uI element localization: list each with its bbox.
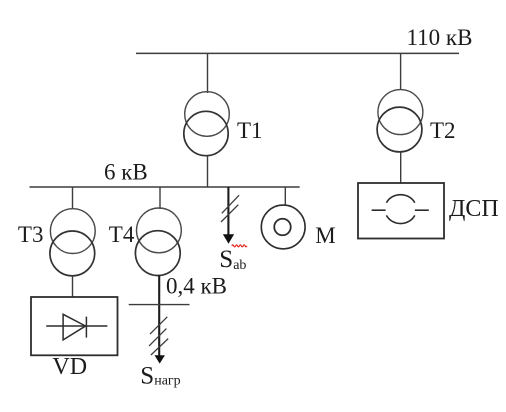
wire T4 primary xyxy=(159,187,161,209)
svg-text:Sнагр: Sнагр xyxy=(140,362,180,389)
arrow S_ab xyxy=(223,234,234,244)
wire T1 primary xyxy=(207,53,209,93)
diode symbol xyxy=(46,314,107,340)
arrow S_nagr xyxy=(155,355,165,363)
svg-text:Sab: Sab xyxy=(219,246,246,273)
svg-text:T3: T3 xyxy=(18,222,44,247)
svg-text:T4: T4 xyxy=(109,222,135,247)
bus 6 kV xyxy=(30,186,300,188)
wire motor M xyxy=(284,187,286,206)
svg-text:T2: T2 xyxy=(430,118,456,143)
wire T3 primary xyxy=(72,187,74,209)
spellcheck squiggle xyxy=(232,245,247,247)
svg-text:110 кВ: 110 кВ xyxy=(407,25,473,50)
hatch marks S_nagr xyxy=(149,317,168,355)
svg-text:0,4 кВ: 0,4 кВ xyxy=(166,274,227,299)
svg-text:ДСП: ДСП xyxy=(449,196,499,222)
wire T1 secondary xyxy=(207,156,209,187)
arc furnace DSP box xyxy=(358,183,444,239)
rectifier VD box xyxy=(31,297,118,355)
hatch marks S_ab xyxy=(221,195,239,222)
svg-text:VD: VD xyxy=(52,354,87,380)
transformer T2 xyxy=(377,90,423,152)
motor M xyxy=(261,205,305,249)
svg-text:T1: T1 xyxy=(237,118,263,143)
wire T2 primary xyxy=(400,53,402,90)
bus 110 kV xyxy=(136,52,459,54)
wire T2 to DSP xyxy=(400,152,402,183)
wire S_ab feeder xyxy=(227,187,229,236)
svg-text:6 кВ: 6 кВ xyxy=(104,160,148,185)
transformer T4 xyxy=(135,208,181,276)
bus 0,4 kV xyxy=(129,304,190,306)
transformer T3 xyxy=(50,209,95,276)
wire T4 secondary feeder xyxy=(158,275,160,357)
arc furnace DSP symbol xyxy=(372,195,429,224)
transformer T1 xyxy=(184,92,229,156)
wire T3 to VD xyxy=(72,276,74,297)
svg-text:M: M xyxy=(315,223,335,248)
